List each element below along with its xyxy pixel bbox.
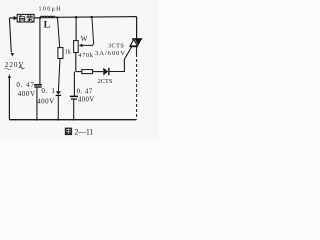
svg-text:1k: 1k <box>65 49 72 56</box>
svg-text:0. 1: 0. 1 <box>41 87 55 95</box>
svg-text:2CTS: 2CTS <box>98 78 113 85</box>
svg-text:400V: 400V <box>37 97 54 105</box>
svg-text:3A/600V: 3A/600V <box>95 50 125 57</box>
svg-text:470k: 470k <box>78 52 93 59</box>
svg-text:0. 47: 0. 47 <box>16 81 34 89</box>
svg-text:2—11: 2—11 <box>74 128 93 137</box>
svg-text:L: L <box>44 20 51 31</box>
svg-text:400V: 400V <box>78 97 94 104</box>
svg-text:0. 47: 0. 47 <box>77 89 93 96</box>
svg-text:400V: 400V <box>18 90 35 98</box>
svg-text:3CTS: 3CTS <box>108 42 124 49</box>
svg-text:100μH: 100μH <box>39 7 62 13</box>
svg-text:W: W <box>81 35 88 43</box>
